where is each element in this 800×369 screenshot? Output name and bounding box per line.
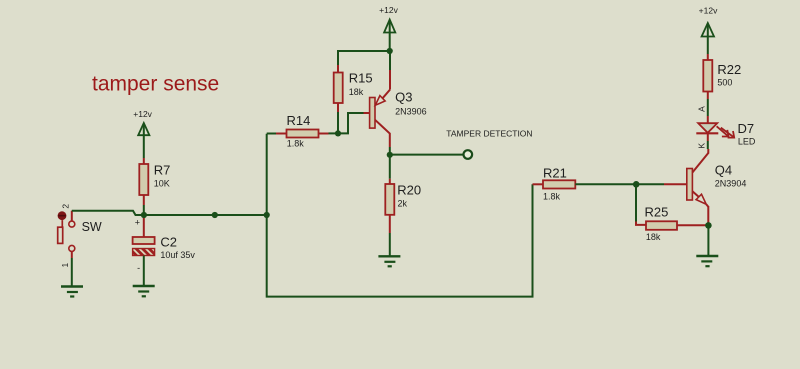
pin R14 right	[319, 133, 329, 135]
svg-text:-: -	[137, 263, 140, 273]
wire riser R14 column	[267, 134, 533, 297]
node junction R14/R15/base	[335, 130, 341, 136]
wire node to R15	[338, 51, 390, 65]
pin SW terminal2 up	[71, 211, 73, 221]
svg-text:R21: R21	[543, 165, 567, 180]
transistor Q3 body bar	[370, 98, 375, 129]
pin R22 bottom	[707, 92, 709, 100]
power +12v (right) arrow symbol	[702, 23, 714, 37]
svg-text:10uf 35v: 10uf 35v	[160, 250, 195, 260]
pin R20 top	[389, 179, 391, 184]
pin Q4 collector up	[707, 149, 709, 154]
node junction mid wire	[212, 212, 218, 218]
svg-text:1.8k: 1.8k	[543, 192, 561, 202]
pin R21 left	[533, 183, 544, 185]
svg-text:R14: R14	[287, 113, 311, 128]
resistor R20	[385, 184, 394, 215]
svg-text:SW: SW	[82, 220, 102, 234]
wire Q3 collector to node	[389, 147, 391, 154]
svg-text:A: A	[696, 106, 706, 112]
pin Q4 emitter down	[707, 206, 709, 223]
wire node to R20	[389, 157, 391, 179]
svg-text:R20: R20	[397, 183, 421, 198]
pin Q3 emitter up	[389, 70, 391, 90]
resistor R22	[703, 60, 712, 92]
resistor R25	[646, 221, 677, 230]
svg-text:2k: 2k	[398, 199, 408, 209]
wire node to Q3 base	[338, 113, 364, 133]
svg-text:18k: 18k	[349, 87, 364, 97]
svg-text:+: +	[135, 218, 140, 228]
wire SW to ground	[71, 258, 73, 286]
svg-text:10K: 10K	[154, 178, 170, 188]
wire power to R22	[707, 25, 709, 55]
node junction R21/R25/base	[633, 181, 640, 188]
transistor Q3 collector	[375, 120, 390, 147]
wire node to output terminal	[390, 154, 464, 156]
svg-text:tamper sense: tamper sense	[92, 73, 219, 96]
svg-text:+12v: +12v	[699, 6, 718, 16]
capacitor C2 top plate	[133, 237, 155, 244]
node junction at vertical riser	[264, 212, 270, 218]
switch SW actuator	[61, 220, 63, 227]
svg-text:R7: R7	[154, 163, 171, 178]
wire R15 to node	[337, 112, 339, 133]
pin R15 top	[337, 65, 339, 73]
ground (under C2)	[133, 286, 155, 296]
node junction at +12v mid	[387, 48, 393, 54]
transistor Q4 emitter with arrow	[692, 191, 699, 197]
wire D7 to Q4 collector	[707, 141, 709, 149]
pin R7 bottom	[143, 195, 145, 205]
svg-text:R22: R22	[717, 62, 741, 77]
wire R20 to ground	[389, 233, 391, 256]
svg-text:TAMPER DETECTION: TAMPER DETECTION	[446, 128, 532, 138]
pin R7 top	[143, 158, 145, 164]
svg-text:1.8k: 1.8k	[287, 138, 305, 148]
switch SW terminal 1	[69, 245, 75, 251]
wire node down to R25	[635, 184, 637, 222]
pin D7 anode	[707, 116, 709, 123]
svg-text:2N3906: 2N3906	[395, 107, 427, 117]
ground (under R20)	[378, 256, 400, 266]
resistor R21	[543, 180, 575, 188]
svg-text:C2: C2	[160, 235, 177, 250]
svg-text:R15: R15	[349, 71, 373, 86]
wire R22 to D7	[707, 99, 709, 116]
terminal TAMPER DETECTION	[464, 150, 473, 159]
wire Q3 emitter to node	[389, 52, 391, 70]
svg-text:+12v: +12v	[133, 109, 152, 119]
svg-text:LED: LED	[738, 136, 756, 146]
node junction collector/R20/output	[387, 152, 393, 158]
capacitor C2 bottom plate (hatched)	[133, 249, 155, 256]
pin Q3 base	[364, 112, 370, 114]
transistor Q3 emitter with arrow	[383, 90, 391, 99]
svg-text:D7: D7	[738, 121, 755, 136]
wire SW to node (with jog)	[72, 211, 267, 215]
transistor Q4 collector	[692, 153, 708, 173]
svg-text:R25: R25	[645, 205, 669, 220]
pin R25 left	[636, 222, 646, 225]
svg-text:500: 500	[717, 77, 732, 87]
pin R15 bottom	[337, 103, 339, 112]
wire R14 to node	[329, 132, 339, 134]
svg-text:Q3: Q3	[395, 89, 412, 104]
resistor R15	[334, 73, 343, 104]
pin Q4 base	[664, 183, 687, 185]
node junction at R7/C2	[141, 212, 147, 218]
svg-text:Q4: Q4	[715, 162, 732, 177]
power +12v (middle) arrow symbol	[384, 20, 395, 33]
svg-text:2N3904: 2N3904	[715, 179, 747, 189]
svg-text:K: K	[696, 143, 706, 149]
LED D7 triangle	[698, 123, 717, 133]
pin R14 left	[276, 133, 287, 135]
wire R7 to node	[143, 205, 145, 215]
pin R20 bottom	[389, 215, 391, 233]
ground (under SW)	[61, 287, 83, 297]
wire from riser to R14	[267, 133, 276, 135]
transistor Q4 body bar	[687, 169, 693, 201]
svg-text:18k: 18k	[646, 232, 661, 242]
switch SW cap	[58, 211, 67, 220]
LED D7 cathode bar	[696, 132, 718, 134]
node junction emitter/R25	[705, 222, 712, 229]
pin C2 top	[143, 215, 145, 237]
pin D7 cathode	[707, 133, 709, 141]
svg-text:1: 1	[60, 262, 70, 267]
resistor R14	[287, 130, 319, 138]
wire power to R7	[143, 125, 145, 159]
wire C2 to ground	[143, 256, 145, 286]
pin SW terminal1 down	[71, 252, 73, 258]
power +12v (left) arrow symbol	[138, 123, 149, 135]
wire power to node	[389, 21, 391, 50]
pin R22 top	[707, 54, 709, 60]
pin R25 right	[677, 224, 708, 226]
LED D7 emission arrows	[717, 126, 735, 137]
svg-text:2: 2	[60, 204, 70, 209]
ground (under Q4)	[696, 256, 718, 266]
switch SW terminal 2	[69, 221, 75, 227]
wire R21 to node	[575, 183, 664, 185]
wire node to ground	[707, 227, 709, 255]
svg-text:+12v: +12v	[379, 5, 398, 15]
resistor R7	[139, 164, 148, 195]
